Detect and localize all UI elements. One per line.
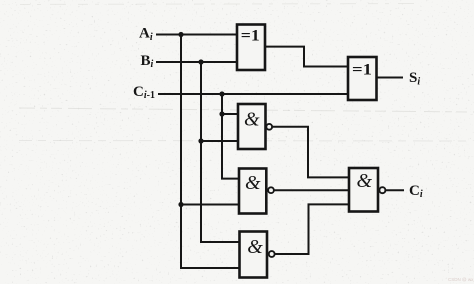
inverter bubble U4 bbox=[268, 187, 274, 193]
wire input A bbox=[156, 34, 237, 36]
junction node A bbox=[178, 32, 183, 37]
junction node A-gate2 bbox=[178, 202, 183, 207]
nand gate U6 box bbox=[349, 168, 378, 212]
svg-text:=1: =1 bbox=[352, 62, 372, 79]
junction node B-gate1 bbox=[198, 138, 203, 143]
wire gate2 to final gate bbox=[274, 189, 349, 191]
wire input C bbox=[158, 93, 348, 95]
wire final gate to Ci bbox=[385, 189, 404, 191]
wire C branch to gate1 bbox=[222, 113, 238, 115]
svg-text:=1: =1 bbox=[241, 27, 260, 44]
svg-text:&: & bbox=[245, 172, 261, 194]
scan streak mid lower bbox=[19, 140, 470, 143]
junction node B bbox=[198, 59, 203, 64]
junction node C-gate1 bbox=[219, 111, 224, 116]
scan streak top bbox=[20, 4, 420, 5]
wire input B bbox=[156, 61, 237, 63]
wire A vertical bbox=[181, 35, 240, 269]
wire XOR2 to Si bbox=[377, 77, 404, 79]
svg-text:&: & bbox=[244, 109, 260, 131]
nand gate U4 box bbox=[239, 169, 266, 214]
wire gate3 to final gate bbox=[275, 204, 350, 254]
wire B vertical bbox=[201, 62, 240, 242]
junction node C bbox=[219, 91, 224, 96]
xor gate U2 box bbox=[348, 57, 377, 100]
inverter bubble U3 bbox=[266, 124, 272, 130]
xor gate U1 box bbox=[237, 25, 265, 71]
wire XOR1 to XOR2 bbox=[265, 47, 348, 67]
nand gate U5 box bbox=[240, 232, 268, 278]
wire C vertical bbox=[222, 94, 239, 179]
wire A branch to gate2 bbox=[181, 204, 239, 206]
svg-text:CSDN @ wx_digital: CSDN @ wx_digital bbox=[448, 277, 474, 282]
inverter bubble U6 bbox=[379, 187, 385, 193]
wire B branch to gate1 bbox=[201, 140, 238, 142]
svg-text:&: & bbox=[247, 236, 263, 258]
wire gate1 to final gate bbox=[272, 127, 349, 178]
svg-text:&: & bbox=[357, 170, 373, 192]
scan streak mid upper bbox=[19, 108, 474, 112]
inverter bubble U5 bbox=[269, 251, 275, 257]
nand gate U3 box bbox=[238, 104, 266, 149]
